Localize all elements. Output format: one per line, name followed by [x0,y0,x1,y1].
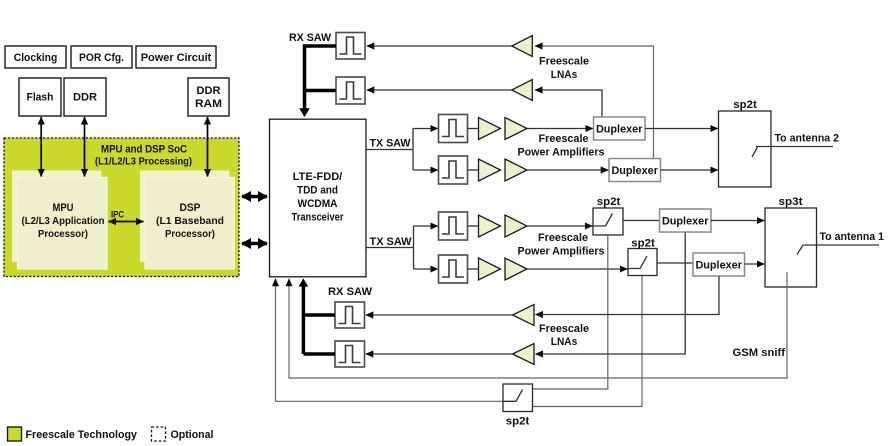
svg-text:(L1 Baseband: (L1 Baseband [156,215,224,227]
wire Duplexer 4 to sp3t [745,263,765,265]
wire to SAW D [414,268,438,270]
svg-text:Freescale: Freescale [538,232,588,244]
svg-text:LNAs: LNAs [551,336,578,348]
wire LNA1b to SAW RX1 bottom [366,314,513,316]
legend Freescale Technology [8,427,138,441]
svg-text:Processor): Processor) [38,228,88,240]
wire amps to sp2t C [527,225,592,227]
LNA top 2 [512,80,533,101]
svg-text:Optional: Optional [171,429,214,441]
SAW filter TX C [439,212,468,240]
box Flash [19,78,61,116]
amplifier D1 [479,258,501,280]
svg-text:(L2/L3 Application: (L2/L3 Application [22,215,105,227]
svg-text:IPC: IPC [111,210,124,220]
svg-text:Duplexer: Duplexer [695,260,742,272]
wire Duplexer 4 to LNA1b [536,277,720,315]
svg-text:Power Amplifiers: Power Amplifiers [518,147,605,159]
svg-text:sp2t: sp2t [733,99,757,111]
svg-text:DDR: DDR [197,85,221,97]
LNA bottom 1 [513,305,535,326]
label TX SAW 2 [370,236,413,248]
svg-text:Duplexer: Duplexer [611,165,658,177]
LNA bottom 2 [513,344,535,365]
svg-text:Processor): Processor) [165,228,215,240]
wire SAW C to amps [468,225,480,227]
thick RX trunk top [299,46,336,117]
amplifier A2 [505,118,527,140]
switch sp3t antenna 1 [765,196,817,287]
svg-text:RAM: RAM [195,98,222,110]
wire to antenna 2 [756,133,839,147]
wire to SAW B [413,169,438,171]
wire sp3t to transceiver GSM sniff [289,272,787,378]
svg-text:WCDMA: WCDMA [298,198,338,210]
wire SAW A to amps [468,128,480,130]
MPU front box [18,178,108,270]
svg-text:POR Cfg.: POR Cfg. [79,52,124,64]
wire Duplexer 3 to sp3t [711,220,764,222]
IPC arrow [109,210,144,222]
svg-text:MPU and DSP SoC: MPU and DSP SoC [101,144,187,156]
SAW filter RX1 bottom [335,302,365,328]
svg-text:Power Circuit: Power Circuit [141,52,212,64]
wire SAW D to amps [468,268,480,270]
wire SAW B to amps [468,169,480,171]
wire sp2t D to Duplexer 4 [657,262,693,264]
switch sp2t antenna 2 [719,99,772,187]
label RX SAW bottom [328,286,373,298]
wire TX trunk 2 [367,226,414,269]
label GSM sniff [733,347,786,359]
thick RX trunk bottom [299,278,335,354]
LNA top 1 [512,36,533,57]
svg-text:To antenna 1: To antenna 1 [820,231,885,243]
wire sp2t D bottom to GSM sp2t [533,276,642,407]
label Freescale LNAs bottom [539,323,589,348]
wire LNA2b to SAW RX2 bottom [366,353,513,355]
wire sp2t C bottom to GSM sp2t [533,236,608,390]
svg-text:Freescale Technology: Freescale Technology [26,429,138,441]
switch sp2t GSM [503,384,533,428]
svg-text:Transceiver: Transceiver [292,212,345,224]
svg-text:TDD and: TDD and [297,185,338,197]
block MPU and DSP SoC [4,138,239,277]
Duplexer 1 [594,117,646,140]
wire Flash-SoC double arrow [40,117,42,177]
box DDR [64,78,106,116]
wire DDR-SoC double arrow [84,117,86,177]
SAW filter TX D [439,255,468,283]
wire Duplexer1 to sp2t antenna2 [645,128,718,130]
wire sp2t C to Duplexer 3 [623,220,659,222]
wire to antenna 1 [797,231,884,255]
svg-text:LTE-FDD/: LTE-FDD/ [293,171,343,183]
wire DDR RAM-SoC double arrow [207,117,209,177]
svg-text:sp2t: sp2t [506,416,530,428]
wire Duplexer1 to LNA2t [535,90,602,117]
block LTE transceiver U1 [270,119,367,277]
svg-text:Power Amplifiers: Power Amplifiers [518,246,605,258]
svg-text:LNAs: LNAs [551,69,578,81]
svg-text:sp2t: sp2t [597,196,621,208]
wire to SAW C [414,225,438,227]
MPU back box [12,171,102,263]
SAW filter RX1 top [336,33,365,60]
wire Duplexer2 to sp2t antenna2 [661,169,718,171]
box POR Cfg. [71,46,132,68]
svg-text:To antenna 2: To antenna 2 [775,133,840,145]
legend Optional [152,427,214,441]
Duplexer 3 [660,209,712,232]
SAW filter RX2 top [336,77,365,104]
box Clocking [5,46,66,68]
wire to SAW A [413,128,438,130]
SoC-Transceiver thick double arrow 1 [242,195,267,199]
svg-text:Freescale: Freescale [539,56,589,68]
svg-text:DSP: DSP [180,202,201,214]
svg-text:DDR: DDR [73,92,97,104]
svg-text:sp2t: sp2t [631,238,655,250]
wire amps to Duplexer 1 [527,128,593,130]
svg-text:Clocking: Clocking [14,52,58,64]
wire Duplexer 3 to LNA2b [536,233,686,355]
label TX SAW 1 [370,138,412,150]
amplifier B2 [505,159,527,181]
DSP front box [145,178,235,270]
svg-text:Freescale: Freescale [539,323,589,335]
switch sp2t C [593,196,623,235]
SAW filter TX A [439,115,468,143]
box DDR RAM [188,78,229,116]
amplifier C1 [479,215,501,237]
label Freescale LNAs top [539,56,589,82]
wire TX trunk 1 [367,129,414,171]
Duplexer 2 [609,159,661,182]
SAW filter RX2 bottom [335,341,365,367]
svg-text:sp3t: sp3t [779,196,803,208]
wire amps to Duplexer 2 [527,169,608,171]
svg-text:Duplexer: Duplexer [596,124,643,136]
svg-text:Duplexer: Duplexer [662,216,709,228]
SAW filter TX B [439,156,468,184]
svg-text:TX SAW: TX SAW [370,236,413,248]
label Freescale Power Amplifiers 1 [518,133,605,159]
amplifier B1 [479,159,501,181]
svg-text:Flash: Flash [27,92,54,104]
svg-text:RX SAW: RX SAW [328,286,373,298]
svg-text:Freescale: Freescale [539,133,589,145]
box Power Circuit [136,46,216,68]
svg-text:RX SAW: RX SAW [289,32,332,44]
label Freescale Power Amplifiers 2 [518,232,605,258]
DSP back box [140,171,230,263]
wire LNA2t to SAW RX2 [367,89,512,91]
label RX SAW top [289,32,332,44]
wire Duplexer2 to LNA1t [535,46,654,158]
svg-text:(L1/L2/L3 Processing): (L1/L2/L3 Processing) [95,156,192,168]
svg-text:TX SAW: TX SAW [370,138,412,150]
amplifier A1 [479,118,501,140]
SoC-Transceiver thick double arrow 2 [242,242,267,246]
wire GSM sp2t to transceiver [276,279,534,402]
switch sp2t D [628,238,657,276]
wire amps to sp2t D [527,268,627,270]
wire LNA1t to SAW RX1 [367,45,512,47]
Duplexer 4 [693,253,745,276]
svg-text:MPU: MPU [53,202,74,214]
svg-text:GSM sniff: GSM sniff [733,347,786,359]
amplifier D2 [505,258,527,280]
amplifier C2 [505,215,527,237]
